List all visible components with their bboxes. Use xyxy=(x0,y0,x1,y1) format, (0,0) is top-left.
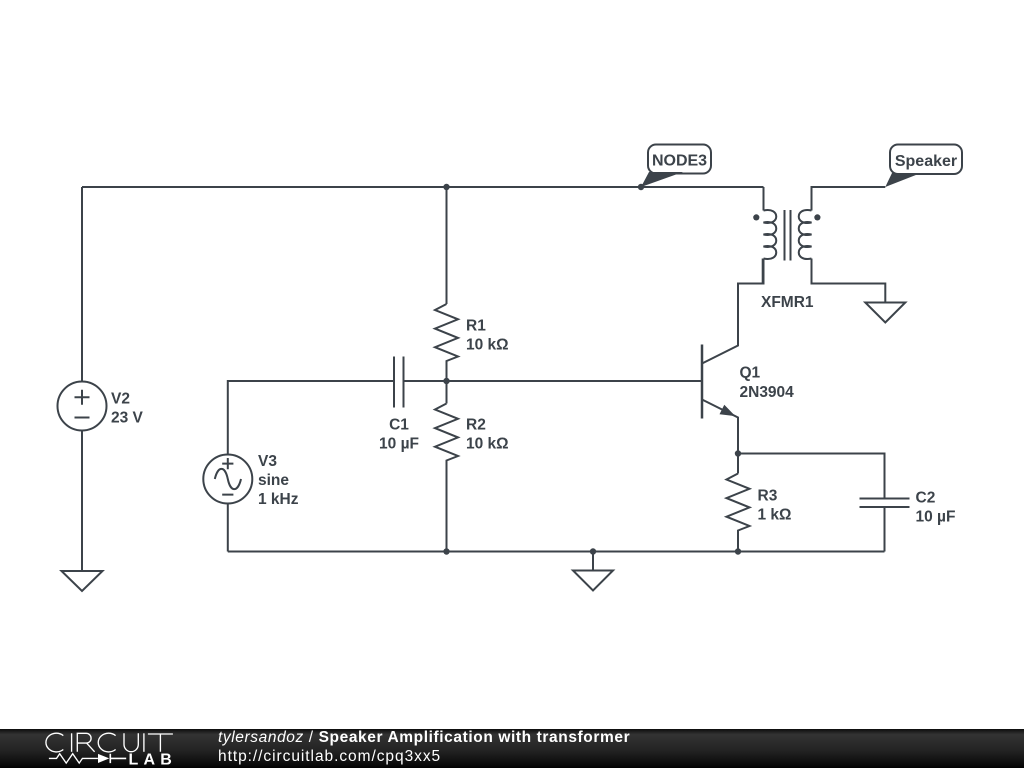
svg-text:10 kΩ: 10 kΩ xyxy=(466,337,509,354)
svg-text:10 µF: 10 µF xyxy=(379,436,419,453)
svg-text:Q1: Q1 xyxy=(740,365,761,382)
svg-text:R2: R2 xyxy=(466,417,486,434)
svg-text:NODE3: NODE3 xyxy=(652,153,707,170)
svg-text:sine: sine xyxy=(258,472,289,489)
svg-text:V2: V2 xyxy=(111,391,130,408)
svg-text:XFMR1: XFMR1 xyxy=(761,294,814,311)
svg-text:V3: V3 xyxy=(258,453,277,470)
svg-text:1 kHz: 1 kHz xyxy=(258,491,299,508)
svg-text:C1: C1 xyxy=(389,417,409,434)
svg-text:1 kΩ: 1 kΩ xyxy=(758,507,792,524)
svg-text:10 kΩ: 10 kΩ xyxy=(466,436,509,453)
svg-text:R1: R1 xyxy=(466,318,486,335)
svg-text:23 V: 23 V xyxy=(111,410,144,427)
svg-text:LAB: LAB xyxy=(129,751,177,768)
svg-text:C2: C2 xyxy=(916,490,936,507)
svg-text:Speaker: Speaker xyxy=(895,153,957,170)
svg-text:2N3904: 2N3904 xyxy=(740,384,795,401)
svg-text:10 µF: 10 µF xyxy=(916,509,956,526)
svg-text:R3: R3 xyxy=(758,488,778,505)
